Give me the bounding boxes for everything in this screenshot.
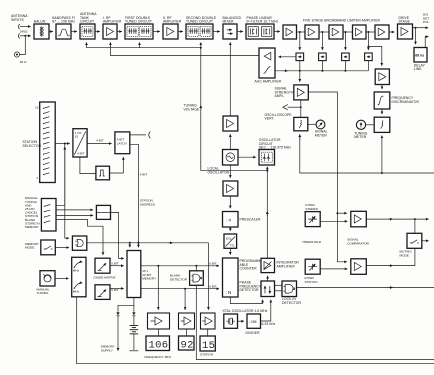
station display digits 15 [200,336,215,352]
muting mode block [407,233,422,248]
tuning voltage rail to tank circuits [86,43,88,48]
level detector 2 box [319,53,327,61]
frequency display digits 106 [146,336,170,352]
svg-text:AMPLIFIER: AMPLIFIER [163,20,182,24]
first double tuned circuit block [125,24,153,39]
svg-text:15: 15 [202,340,215,352]
svg-text:THRESHOLD: THRESHOLD [302,240,322,244]
wire limiter2 to limiter3 [319,31,329,33]
wire selector to encoder [55,143,69,145]
wire bus1 to blank detector [195,266,197,271]
wire mixer to if filter [237,31,243,33]
if filter inner symbols [248,27,272,37]
balun block [34,24,49,39]
local oscillator label [208,167,230,175]
wire local osc down to buffer amp 2 [229,165,231,178]
node limiter4 output tap [367,31,369,33]
delay line label [414,63,426,71]
signal meter [316,120,325,129]
wire bus1 to display driver 1 [157,266,159,310]
manual out3 to logic box [56,214,93,216]
svg-text:15: 15 [75,134,79,138]
rf amplifier 2 block [163,24,178,39]
node rail detector2 [321,70,323,72]
svg-text:MEMORY: MEMORY [25,225,39,229]
60 ohm coax connector [14,37,25,58]
svg-text:COUNTER: COUNTER [240,267,258,271]
wire detector1 bottom to rail [299,61,301,71]
divider block [247,314,261,328]
svg-text:STAGE: STAGE [399,20,411,24]
counter feedback to phase detector [230,297,262,304]
wire rail down into memory top [129,243,131,247]
svg-text:IF FILTER 10.7 MHz: IF FILTER 10.7 MHz [247,20,279,24]
manual tuning block [41,199,56,232]
wire branch to discriminator driver [368,46,381,65]
wire detector2 bottom to rail [321,61,323,71]
svg-text:VOLTAGE: VOLTAGE [184,107,201,111]
rf amplifier 1 block [103,24,117,39]
signal strength label [275,87,295,99]
encoder block 1 of 15 to 4 bit [73,129,87,157]
4 bit latch block [115,132,130,154]
rf amplifier 1 triangle [107,28,114,36]
antenna tank label [80,12,97,24]
divider output to phase detector [261,300,271,321]
agc amplifier symbols [264,52,271,73]
manual out4 to diode matrix 1 [56,219,103,254]
svg-text:FIVE STAGE BROADBAND LIMITE: FIVE STAGE BROADBAND LIMITER AMPLIFIER [303,19,381,23]
inter station label [305,276,318,284]
svg-text:AMPL: AMPL [275,94,284,98]
wire limiter1 to limiter2 [297,31,306,33]
inter stereo label [305,203,318,211]
node bus1 display driver tap [157,265,159,267]
signal comparator 1 block [351,211,367,227]
memory bus 1 to counter [141,265,219,267]
blank detector output to bottom rail [196,285,434,359]
if filter label [247,16,279,24]
wire detector1 to agc input [279,56,296,58]
selector node down to or gate [65,144,69,239]
level detector 4 box [365,53,373,61]
node limiter2 output tap [321,31,323,33]
svg-text:6 BIT: 6 BIT [209,261,217,265]
memory supply stem [118,298,134,312]
tuning voltage label [184,104,201,112]
wire if filter to limiter 1 [274,31,280,33]
wire tap down into level detector 3 [344,32,346,50]
wire antenna to balun upper [25,26,30,28]
svg-text:METER: METER [315,133,328,137]
buffer amplifier to mixer [223,116,238,131]
wire tap down into level detector 2 [321,32,323,50]
display driver 1 block [148,313,170,329]
integrator amplifier block [261,258,275,272]
wire driver to discriminator [381,85,383,90]
balanced mixer block [223,24,237,39]
level detector 1 box [296,53,304,61]
svg-text:MIXER: MIXER [223,20,234,24]
svg-text:INPUTS: INPUTS [11,18,24,22]
svg-text:4 BIT: 4 BIT [140,172,148,176]
arrow on detector rail [284,70,288,72]
agc amplifier block [259,48,275,78]
integrator amplifier label [277,261,300,269]
mute rail riser from gate1 [299,134,301,140]
knob to mhz switch block [55,277,68,279]
diode matrix 2 to memory [110,288,124,290]
antenna input terminal 240 ohm lower [18,34,25,39]
arrow into first double tuned [139,43,141,48]
wire limiter4 to limiter5 [366,31,375,33]
memory mode to or gate [55,247,69,249]
arrow on comparator2 output [389,265,393,267]
drive stage label [399,16,411,24]
svg-text:MEMORY: MEMORY [142,277,156,281]
wire mute gate to signal meter [308,123,316,125]
second double tuned circuit block [186,24,213,39]
limiter amplifier stage 5 [375,25,389,39]
memory bus 2 to counter [141,288,219,290]
phase frequency detector block [261,281,275,297]
svg-text:STATION: STATION [305,280,318,284]
frequency discriminator block [374,92,390,109]
wire fdt to rf amp 2 [153,31,160,33]
agc feedback rail to rf amplifier 1 [110,43,259,56]
signal comparator 2 block [351,259,367,275]
or gate output rail [87,243,209,310]
svg-text:DETECTOR: DETECTOR [170,278,188,282]
programmable counter label [240,259,261,271]
arrow on lock in output [389,287,393,289]
wire local osc to oscillator circuit [238,156,256,158]
node junction 60 ohm join [24,35,26,37]
level detector 3 box [342,53,350,61]
svg-text:: 256: : 256 [249,320,257,324]
buffer amplifier 2 block [223,181,238,196]
mid arrowhead up on integrator line [266,211,268,216]
node oscillator tuning junction [266,170,268,172]
limiter amplifier stage 3 [329,25,343,39]
phase frequency detector label [240,281,262,293]
node bus1 blank detector tap [195,265,197,267]
programmable counter block [223,258,239,297]
node mute rail tuning gate [381,172,383,174]
wire bus2 to display driver 2 [184,289,186,310]
balanced mixer symbol [227,30,233,34]
mhz switch block [72,257,86,297]
svg-text:DIVIDER: DIVIDER [246,331,261,335]
logic double box [96,205,110,219]
diode matrix 2 block [95,285,110,300]
antenna tank inner symbol [82,27,93,37]
wire discriminator to mute gate 2 [381,109,383,114]
wire junction down to delay line [415,28,417,45]
wire branch to comparator 1 [337,212,346,214]
wire driver3 to display3 [207,329,209,336]
svg-text:ADDRESS: ADDRESS [140,203,155,207]
svg-text:: N: : N [226,290,232,295]
svg-text:MODE: MODE [400,253,409,257]
memory supply label [101,345,115,353]
antenna inputs label [11,14,28,22]
svg-text:LINE: LINE [414,67,422,71]
wire ecl ttl to programmable counter [229,248,231,254]
frequency display digits 92 [179,336,195,351]
svg-text:COMPARATOR: COMPARATOR [347,241,369,245]
svg-text:92: 92 [181,339,194,351]
svg-text:DETECTOR: DETECTOR [282,301,301,305]
bandpass filter block [56,24,71,39]
oscillator circuit label [259,138,291,150]
svg-text:METER: METER [354,135,367,139]
signal strength output to comparators [308,92,347,262]
svg-text:AMPLIFIER: AMPLIFIER [103,20,122,24]
manual tuning knob [40,271,55,286]
svg-text:DISCRIMINATOR: DISCRIMINATOR [392,100,420,104]
node limiter1 output tap [299,31,301,33]
inter station pot [305,259,320,274]
station selector switch contacts [43,107,50,176]
svg-text:TUNED CIRCUIT: TUNED CIRCUIT [125,20,152,24]
svg-text:4 BIT: 4 BIT [96,138,104,142]
node rail memory write [129,242,131,244]
detector sum rail to agc [275,70,368,72]
arrow on gate rail [168,242,173,244]
first double tuned inner symbols [127,27,151,37]
svg-text:87 ... 108 MHz: 87 ... 108 MHz [52,20,75,24]
tuning voltage vertical line [200,48,202,171]
pulse shaper to latch bottom [110,157,124,173]
pulse shaper block [96,166,110,180]
diode matrix 1 to memory [110,265,124,267]
node muting branch [414,218,416,220]
wire branch down to muting mode [414,219,416,233]
second double tuned label [186,16,217,24]
svg-text:STEREO: STEREO [305,207,318,211]
wire phase detector to integrator [267,276,269,281]
wire delay line up to right edge output [425,37,428,48]
svg-text:DETECTOR: DETECTOR [240,288,259,292]
lock in detector output line [297,287,434,289]
svg-text:STATION: STATION [200,352,213,356]
tuning voltage rail horizontal [87,47,201,49]
oscilloscope vert label [265,113,293,121]
svg-text:SELECTOR: SELECTOR [23,144,42,148]
wire signal strength column down [299,71,301,82]
first double tuned label [125,16,152,24]
blank detector label [170,274,188,282]
delay line block [414,48,427,63]
svg-text:DIODE MATRIX: DIODE MATRIX [94,275,116,279]
svg-text:106: 106 [149,340,169,352]
limiter amplifier stage 2 [305,25,319,39]
arrow up into oscillator circuit [266,167,268,171]
muting mode output arrow [422,240,429,242]
memory supply diode 1 [116,312,119,346]
oscilloscope vert branch [288,106,301,108]
tuning voltage line down to integrator [266,171,268,259]
wire tap down into level detector 1 [299,32,301,50]
wire encoder to latch [87,143,111,145]
svg-text:MHz: MHz [73,269,80,273]
wire inter stereo to comparator 1 [320,220,347,222]
node rail detector1 [299,70,301,72]
wire drive stage to right edge output [413,27,429,29]
antenna input terminal 240 ohm upper [18,24,25,29]
lock in detector label [282,297,301,305]
local oscillator block [223,150,239,166]
mhz block bottom to bottom rail [77,297,434,364]
memory mode block [41,240,56,255]
signal strength amplifier block [294,85,309,100]
wire limiter3 to limiter4 [343,31,353,33]
oscilloscope connector symbol [283,105,288,110]
output label top right [423,13,429,25]
svg-text:240Ω: 240Ω [20,30,28,34]
comparator 2 output to muting [366,248,415,265]
svg-text:1: 1 [36,176,38,180]
manual out1 up to selector node [56,147,65,205]
station selector block [40,102,56,183]
svg-text:TTL: TTL [229,244,235,248]
svg-text:XTAL OSCILLATOR 1.6 MHz: XTAL OSCILLATOR 1.6 MHz [223,309,268,313]
wire antenna to balun lower [25,35,30,37]
arrow on comparator1 output [389,218,393,220]
wire tuning meter to gate2 [366,124,375,126]
svg-text:MHz: MHz [73,290,80,294]
inter stereo threshold pot [305,212,320,227]
memory mode label [25,242,39,250]
svg-text:60 Ω: 60 Ω [20,60,27,64]
svg-text:TUNED CIRCUIT: TUNED CIRCUIT [186,20,213,24]
node limiter3 output tap [344,31,346,33]
svg-text:4 BIT: 4 BIT [77,152,85,156]
signal comparator label [347,238,369,246]
display driver 2 block [179,313,195,329]
svg-text:PRESCALER: PRESCALER [240,218,261,222]
svg-text:AGC AMPLIFIER: AGC AMPLIFIER [255,80,282,84]
xtal oscillator block [224,314,238,328]
second double tuned inner symbols [188,27,211,37]
wire inter station to comparator 2 [320,268,347,270]
wire sdt to balanced mixer [213,31,220,33]
muting mode label [400,250,413,258]
svg-text:BALUN: BALUN [34,20,46,24]
wire driver1 to display1 [157,329,159,336]
memory block [127,251,141,298]
manual tuning switches [44,205,51,224]
node oscilloscope branch [300,106,302,108]
lock in detector block [282,281,297,297]
svg-text:98.0 ... 118.975 MHz: 98.0 ... 118.975 MHz [259,146,291,150]
wire tank to rf amp 1 [95,31,100,33]
antenna tank circuit block [80,24,95,39]
wire rf1 to first double tuned [117,31,122,33]
wire ssa bottom to mute gate 1 [300,100,302,118]
memory label [142,269,156,281]
latch output connector arc [130,132,151,139]
rf amplifier 1 label [103,16,122,24]
memory supply down arrow [117,346,119,351]
ecl ttl converter block [224,234,237,248]
wires phase detector to lock in [275,285,283,291]
node branch junction [368,46,370,48]
wire limiter5 to drive stage [389,31,394,33]
bandpass curve symbol [58,29,70,36]
svg-text:15: 15 [35,106,39,110]
svg-text:6.25 kHz: 6.25 kHz [262,322,276,326]
svg-text:VERT.: VERT. [265,117,275,121]
rf amplifier 2 label [163,16,182,24]
frequency discriminator label [392,96,420,104]
station address label [140,199,155,207]
wire xtal to divider [238,320,244,322]
display driver 3 block [201,313,216,329]
svg-text:CIRCUIT: CIRCUIT [80,20,94,24]
wire bandpass to antenna tank [71,31,77,33]
rf amplifier 2 triangle [167,28,174,36]
tuning meter [356,120,365,129]
manual tuning block label [25,196,40,229]
wire local osc up to buffer amp [229,134,231,149]
diode matrix 1 block [95,258,110,273]
mute gate 1 block [294,117,308,130]
wire prescaler to ecl ttl [229,227,231,231]
wire buffer2 to prescaler [229,196,231,208]
wire mute rail up into tuning gate [381,136,383,173]
node tuning rail junction [200,47,202,49]
svg-text:MODE: MODE [25,246,34,250]
svg-text:6 BIT: 6 BIT [209,284,217,288]
station selector label [23,140,42,148]
blank detector block [190,271,204,286]
svg-text:5 BIT: 5 BIT [111,262,119,266]
svg-text:PUL: PUL [423,20,429,24]
or gate block [72,236,86,250]
node comparator branch [336,212,338,214]
battery branch diode [132,312,135,325]
tuning voltage horizontal to oscillator [201,170,267,172]
node bus2 display driver tap [184,288,186,290]
battery branch stem [133,305,135,312]
logic box output to memory write input [111,212,124,258]
tuning meter label [354,131,368,139]
arrow into second double tuned [200,43,202,48]
comparator 1 output to edge [366,218,428,220]
manual out2 to logic box [56,209,93,211]
balun transformer symbol [40,27,44,37]
svg-text:AMPLIFIER: AMPLIFIER [277,265,296,269]
manual tuning knob label [37,287,50,295]
node selector output [64,143,66,145]
bandpass label [52,16,75,24]
prescaler block [223,212,239,228]
station address line from latch [130,144,139,247]
oscillator circuit block [259,150,275,166]
wire buffer amp up to balanced mixer [229,42,231,116]
encoder bottom to pulse shaper [80,157,96,174]
svg-text:SUPPLY: SUPPLY [101,349,113,353]
wire rf2 to second double tuned [178,31,183,33]
wire tap down into level detector 4 [367,32,369,50]
balanced mixer label [223,16,242,24]
signal meter label [315,130,328,138]
node rail station address cross [137,242,139,244]
wire driver2 to display2 [185,329,187,336]
wire detector4 bottom to rail [367,61,369,71]
